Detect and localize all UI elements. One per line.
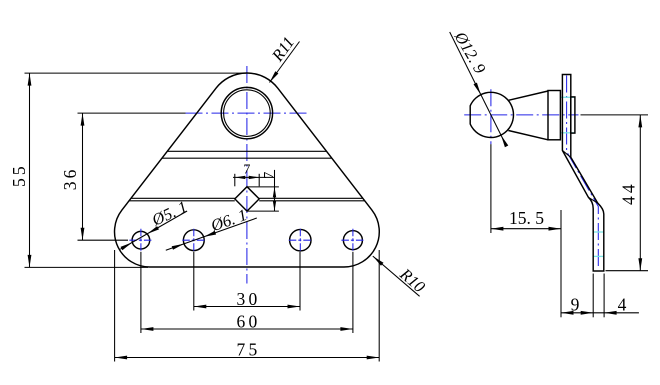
svg-text:15. 5: 15. 5	[509, 208, 544, 228]
hole H3	[290, 230, 311, 251]
hole H4	[343, 231, 362, 250]
hole H4 centermark	[341, 229, 364, 252]
dim 36 extension line bottom	[78, 239, 129, 241]
dim 55 extension line top	[25, 72, 247, 74]
leader line Ø12.9	[450, 32, 507, 146]
svg-text:Ø12. 9: Ø12. 9	[450, 27, 489, 76]
dim 55 line	[29, 73, 31, 267]
flange rectangle	[548, 91, 560, 140]
svg-text:R11: R11	[267, 33, 298, 65]
dim 44 arrow bottom	[638, 258, 642, 271]
dim 30 line	[194, 306, 300, 308]
dim 75 ext line left	[114, 250, 116, 362]
dim 4 arrow (outside, pointing left)	[604, 311, 617, 315]
hole H2 (Ø6.1) centermark	[182, 229, 205, 252]
dim 15.5 ext line right	[560, 210, 562, 317]
dim 55 arrow bottom	[28, 255, 32, 268]
leader Ø12.9 arrow upper	[474, 83, 481, 95]
centerline: big hole horizontal axis	[186, 112, 310, 114]
dim 15.5 ext line left (below ball)	[490, 144, 492, 233]
dim 55 extension line bottom	[25, 266, 149, 268]
dim 9 line	[561, 312, 639, 314]
dim 15.5 arrow left	[491, 227, 504, 231]
bend edge line y=198.3 right of square hole	[259, 197, 363, 199]
leader line Ø6.1	[166, 218, 257, 250]
square hole (rotated 45deg)	[235, 187, 259, 211]
dim 7h arrow right	[249, 176, 260, 179]
dim 7v arrow top	[273, 187, 276, 198]
svg-text:36: 36	[60, 166, 80, 190]
leader R11 arrow	[270, 71, 279, 82]
dim 30 arrow right	[288, 305, 301, 309]
hidden line: lower hole top (cyan)	[593, 231, 604, 233]
dim 15.5 line	[491, 228, 561, 230]
dim 60 arrow left	[141, 327, 154, 331]
leader Ø5.1 arrow lower-left	[121, 242, 133, 250]
bend edge line y=151.3	[167, 150, 326, 152]
leader Ø6.1 arrow upper-right	[204, 231, 216, 237]
ball (Ø12.9) outline	[470, 92, 513, 137]
dim 30 ext line left	[193, 252, 195, 311]
dim 7v arrow bottom	[273, 201, 276, 212]
leader Ø6.1 arrow lower-left	[172, 244, 184, 250]
leader line R11	[270, 42, 300, 83]
hidden line: stud hole bottom (cyan)	[560, 132, 575, 134]
svg-text:30: 30	[237, 289, 261, 309]
dim 60 ext line right	[352, 252, 354, 333]
neck cone top line	[508, 91, 548, 100]
leader line R10	[373, 256, 420, 296]
dim 44 ext line bottom	[606, 270, 649, 272]
dim 44 line	[639, 115, 641, 271]
big hole outer circle	[221, 87, 272, 138]
bend crease lower	[588, 197, 597, 203]
side view: plate strip centerline	[567, 76, 599, 269]
dim 9 arrow left	[561, 311, 574, 315]
svg-text:9: 9	[571, 295, 583, 315]
dim 9/4 ext line right	[603, 274, 605, 318]
leader Ø12.9 arrow lower	[501, 135, 508, 147]
dim 7h arrow left	[235, 176, 246, 179]
neck cone bottom line	[508, 131, 548, 140]
hole H1 (Ø5.1)	[132, 231, 150, 249]
side view: ball horizontal centerline	[464, 114, 578, 116]
dim 7h ext line left	[234, 174, 236, 187]
svg-text:Ø6. 1: Ø6. 1	[207, 205, 249, 235]
leader R10 arrow	[373, 256, 384, 266]
dim 7v ext line bottom	[247, 210, 279, 212]
dim 9/4 ext line left	[592, 274, 594, 318]
dim 30 arrow left	[194, 305, 207, 309]
svg-text:4: 4	[618, 295, 630, 315]
dim 7v line	[274, 170, 276, 211]
rivet tail rectangle	[571, 97, 575, 133]
dim 60 ext line left	[140, 252, 142, 333]
dim 75 arrow right	[367, 356, 380, 360]
svg-text:44: 44	[619, 181, 639, 205]
dim 7h line	[233, 176, 275, 178]
dim 30 ext line right	[299, 252, 301, 311]
plate outline (front view, R11 top / R10 bottom corners)	[115, 73, 380, 267]
hole H1 (Ø5.1) centermark	[129, 229, 152, 252]
dim 36 arrow top	[81, 113, 85, 126]
bend edge line y=200.8 right of square hole	[259, 200, 364, 202]
bend crease upper	[562, 150, 570, 157]
dim 75 line	[115, 357, 380, 359]
leader Ø5.1 arrow upper-right	[147, 226, 159, 234]
svg-text:55: 55	[9, 163, 29, 187]
dim 7h ext line right	[258, 174, 260, 187]
big hole inner circle	[224, 90, 271, 137]
svg-text:7: 7	[262, 172, 277, 179]
bend edge line y=200.8 left of square hole	[129, 200, 235, 202]
dim 9 arrow right	[581, 311, 594, 315]
hole H2 (Ø6.1)	[183, 230, 204, 251]
dim 60 line	[141, 328, 353, 330]
hole H3 centermark	[289, 229, 312, 252]
dim 55 arrow top	[28, 73, 32, 86]
svg-text:Ø5. 1: Ø5. 1	[148, 197, 190, 230]
dim 36 extension line top	[78, 112, 186, 114]
svg-text:75: 75	[237, 340, 261, 360]
plate strip (side view, bent)	[562, 75, 603, 272]
dim 7v ext line top	[247, 186, 279, 188]
svg-text:60: 60	[237, 311, 261, 331]
dim 36 arrow bottom	[81, 228, 85, 241]
dim 44 arrow top	[638, 115, 642, 128]
centerline: plate vertical axis	[246, 66, 248, 284]
dim 15.5 arrow right	[549, 227, 562, 231]
side view: ball vertical centerline (blue part)	[490, 89, 492, 144]
dim 36 line	[82, 113, 84, 240]
dim 60 arrow right	[340, 327, 353, 331]
svg-text:7: 7	[243, 162, 250, 177]
hidden line: stud hole top (cyan)	[560, 96, 575, 98]
svg-text:R10: R10	[396, 264, 430, 297]
dim 44 ext line top	[581, 114, 649, 116]
bend edge line y=198.3 left of square hole	[131, 197, 235, 199]
leader line Ø5.1	[120, 211, 187, 249]
dim 75 ext line right	[378, 250, 380, 362]
hidden line: lower hole bottom (cyan)	[593, 255, 604, 257]
dim 75 arrow left	[115, 356, 128, 360]
bend edge line y=158.2	[162, 157, 332, 159]
